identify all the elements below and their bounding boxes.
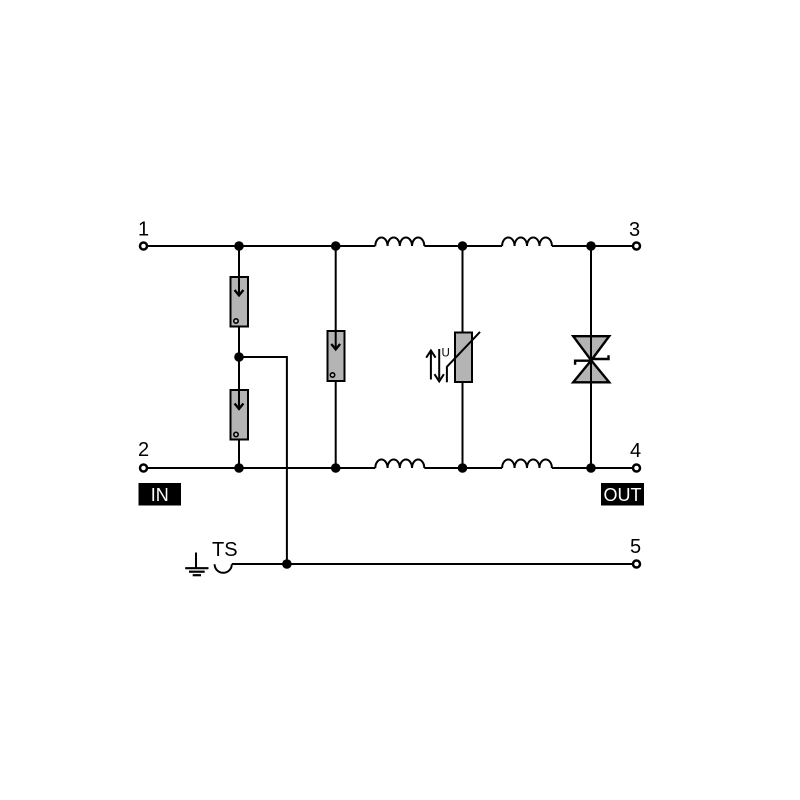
junction top rail at varistor column: [458, 241, 468, 251]
ground: [185, 553, 208, 576]
svg-text:4: 4: [630, 440, 641, 462]
label OUT: [601, 483, 644, 506]
svg-text:5: 5: [630, 536, 641, 558]
disconnect hook (TS contact): [215, 564, 232, 573]
junction top rail at TVS column: [586, 241, 596, 251]
wire TVS column (passes through diode): [590, 246, 592, 468]
svg-text:2: 2: [138, 439, 149, 461]
terminal 5: [630, 536, 641, 568]
gas discharge tube F3 (second column): [328, 246, 345, 381]
wire top rail left segment (terminal 1 to inductor L1): [148, 245, 376, 247]
label IN: [139, 483, 182, 506]
junction top rail at F1 column: [234, 241, 244, 251]
wire bottom rail left segment (terminal 2 to inductor L3): [148, 467, 376, 469]
terminal 1: [138, 219, 149, 250]
inductor L1 (top rail, left): [375, 237, 424, 246]
wire from F2 to bottom rail: [238, 440, 240, 469]
inductor L2 (top rail, right): [502, 237, 552, 246]
svg-text:1: 1: [138, 219, 149, 241]
wire varistor column lower: [462, 382, 464, 468]
svg-text:U: U: [442, 348, 450, 360]
wire bottom rail middle segment: [424, 467, 502, 469]
wire varistor column upper: [462, 246, 464, 333]
junction bottom rail at varistor column: [458, 463, 468, 473]
svg-text:3: 3: [629, 219, 640, 241]
inductor L3 (bottom rail, left): [375, 459, 424, 468]
terminal 2: [138, 439, 149, 472]
node A (junction of F1/F2 with TS branch): [234, 352, 244, 362]
junction top rail at F3 column: [331, 241, 341, 251]
wire TS rail to terminal 5: [232, 563, 633, 565]
svg-text:TS: TS: [212, 539, 238, 561]
junction bottom rail at F2 column: [234, 463, 244, 473]
label U with voltage arrows (varistor annotation): [426, 348, 450, 382]
wire node A to TS branch (right then down to TS rail): [239, 357, 287, 564]
wire from F3 to bottom rail: [335, 381, 337, 468]
wire top rail middle segment: [424, 245, 502, 247]
varistor RV1: [447, 332, 480, 382]
junction bottom rail at TVS column: [586, 463, 596, 473]
svg-text:OUT: OUT: [604, 485, 642, 505]
suppressor diode D1 (bidirectional TVS): [573, 336, 609, 382]
gas discharge tube F2 (left column, lower): [231, 357, 249, 440]
wire bottom rail right segment (to terminal 4): [552, 467, 633, 469]
junction TS rail at branch: [282, 559, 292, 569]
wire top rail right segment (to terminal 3): [552, 245, 633, 247]
svg-text:IN: IN: [151, 485, 169, 505]
gas discharge tube F1 (left column, upper): [231, 246, 249, 327]
terminal 3: [629, 219, 640, 250]
inductor L4 (bottom rail, right): [502, 459, 552, 468]
junction bottom rail at F3 column: [331, 463, 341, 473]
terminal 4: [630, 440, 641, 472]
wire from F1 to node A: [238, 327, 240, 358]
